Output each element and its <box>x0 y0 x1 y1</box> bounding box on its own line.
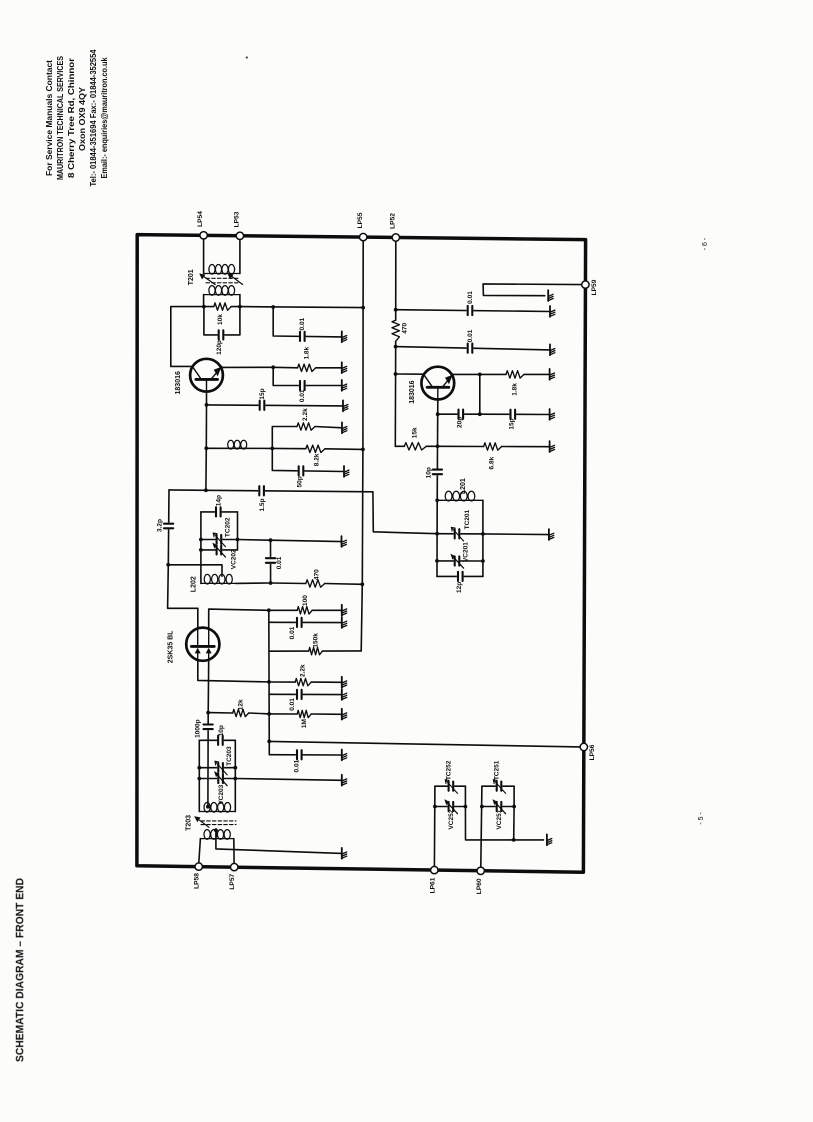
wire <box>206 490 437 533</box>
wire <box>395 241 397 320</box>
wire <box>204 306 214 308</box>
wire <box>269 621 342 623</box>
resistor 15k <box>404 443 426 450</box>
variable capacitor VC203 <box>217 773 224 784</box>
svg-text:TC252: TC252 <box>446 760 453 780</box>
junction <box>271 305 275 309</box>
terminal LP54 <box>200 232 207 239</box>
svg-text:15p: 15p <box>508 418 515 429</box>
ground <box>342 362 347 373</box>
wire <box>437 560 483 562</box>
svg-text:LP61: LP61 <box>429 877 436 893</box>
schematic border <box>137 235 586 873</box>
junction <box>360 582 364 586</box>
wire <box>199 839 201 863</box>
wire <box>269 681 295 683</box>
svg-text:LP59: LP59 <box>591 279 598 295</box>
ground <box>342 536 347 547</box>
wire <box>197 608 199 628</box>
TC202 arrow <box>213 533 225 547</box>
svg-text:Oxon OX9 4QY: Oxon OX9 4QY <box>78 86 87 151</box>
resistor 1M <box>297 710 311 717</box>
wire <box>437 414 439 446</box>
svg-text:3.2p: 3.2p <box>157 519 164 532</box>
trimmer capacitor TC252 <box>448 781 455 792</box>
wire <box>203 239 205 274</box>
trimmer capacitor TC202 <box>216 534 223 545</box>
capacitor 1.5p <box>258 485 265 496</box>
resistor 470 <box>306 580 325 587</box>
ground <box>342 422 347 433</box>
TC203 arrow <box>215 761 227 775</box>
ground <box>342 380 347 391</box>
junction <box>204 446 208 450</box>
wire <box>325 583 363 586</box>
svg-text:VC252: VC252 <box>448 809 455 829</box>
ground <box>342 677 347 688</box>
wire <box>206 447 272 449</box>
wire <box>361 241 363 651</box>
wire <box>396 347 550 350</box>
wire <box>240 307 363 308</box>
wire <box>235 779 341 781</box>
wire <box>207 405 344 406</box>
transistor Q1 183016 <box>190 359 223 392</box>
junction <box>478 412 482 416</box>
junction <box>269 538 273 542</box>
trimmer capacitor TC203 <box>217 762 224 773</box>
svg-text:T201: T201 <box>188 269 195 285</box>
capacitor 20p <box>457 409 464 420</box>
svg-text:1.8k: 1.8k <box>511 383 518 396</box>
resistor 470 <box>392 320 399 341</box>
svg-text:20p: 20p <box>456 417 463 428</box>
speck <box>246 56 248 58</box>
transformer T201 primary winding <box>204 265 240 275</box>
wire <box>322 650 361 652</box>
junction <box>436 444 440 448</box>
junction <box>267 680 271 684</box>
svg-text:TC201: TC201 <box>464 509 471 529</box>
T201 adjust arrow right <box>227 273 242 284</box>
capacitor 0.01 <box>296 749 303 760</box>
svg-text:LP55: LP55 <box>357 212 364 228</box>
capacitor 10p <box>217 735 224 746</box>
wire <box>437 400 439 415</box>
wire <box>426 445 437 447</box>
wire <box>271 540 342 541</box>
wire <box>272 427 297 449</box>
junction <box>166 563 170 567</box>
wire <box>394 341 396 446</box>
svg-text:Email:- enquiries@mauritron.co: Email:- enquiries@mauritron.co.uk <box>100 57 109 178</box>
svg-text:50p: 50p <box>297 476 304 487</box>
svg-text:0.01: 0.01 <box>289 698 296 711</box>
svg-text:183016: 183016 <box>409 380 416 403</box>
TC252 arrow <box>445 780 457 794</box>
ground <box>550 409 555 420</box>
ground <box>344 466 349 477</box>
resistor 8.2k <box>306 445 325 452</box>
trimmer capacitor TC201 <box>454 528 461 539</box>
svg-text:15p: 15p <box>259 388 266 399</box>
svg-text:0.01: 0.01 <box>293 759 300 772</box>
wire <box>481 786 482 867</box>
svg-text:10p: 10p <box>218 725 225 736</box>
terminal LP56 <box>580 743 587 750</box>
svg-text:VC201: VC201 <box>462 542 469 562</box>
wire <box>171 307 204 367</box>
junction <box>270 447 274 451</box>
junction <box>435 532 439 536</box>
wire <box>205 448 207 490</box>
junction <box>199 538 203 542</box>
junction <box>233 777 237 781</box>
svg-text:1M: 1M <box>301 719 308 728</box>
transformer T203 primary winding <box>199 803 235 813</box>
junction <box>206 805 210 809</box>
wire <box>316 367 342 369</box>
junction <box>199 548 203 552</box>
inductor L201 <box>437 491 483 501</box>
svg-text:0.01: 0.01 <box>467 329 474 342</box>
junction <box>481 532 485 536</box>
wire <box>437 575 483 577</box>
wire <box>269 609 297 611</box>
junction <box>436 412 440 416</box>
ground <box>342 689 347 700</box>
svg-text:2SK35 BL: 2SK35 BL <box>168 630 175 663</box>
ground <box>550 344 555 355</box>
wire <box>199 767 235 769</box>
ground <box>548 290 553 301</box>
junction <box>267 712 271 716</box>
svg-text:LP56: LP56 <box>589 744 596 760</box>
wire <box>437 533 483 535</box>
junction <box>233 766 237 770</box>
wire <box>233 839 235 864</box>
wire <box>203 295 205 307</box>
wire <box>208 712 233 714</box>
resistor 10k <box>214 303 231 310</box>
wire <box>269 754 342 756</box>
wire <box>436 500 438 576</box>
wire <box>325 448 363 451</box>
ground <box>549 529 554 540</box>
wire <box>231 306 240 308</box>
wire <box>168 490 198 608</box>
wire <box>237 512 239 550</box>
resistor 12k <box>233 709 249 716</box>
wire <box>273 367 342 385</box>
svg-text:12p: 12p <box>456 582 463 593</box>
wire <box>169 489 206 491</box>
terminal LP58 <box>195 863 202 870</box>
transformer T203 secondary winding <box>200 830 233 840</box>
svg-text:1.5p: 1.5p <box>259 498 266 511</box>
svg-text:L202: L202 <box>190 576 197 592</box>
wire <box>270 540 272 583</box>
svg-text:L201: L201 <box>460 478 467 494</box>
junction <box>236 538 240 542</box>
ground <box>342 617 347 628</box>
ground <box>550 369 555 380</box>
wire <box>271 582 306 585</box>
wire <box>199 778 235 780</box>
wire <box>395 445 404 447</box>
svg-text:10p: 10p <box>425 467 432 478</box>
wire <box>216 830 342 853</box>
wire <box>201 511 238 513</box>
T203 core <box>201 821 236 825</box>
capacitor 120p <box>218 329 225 340</box>
wire <box>453 373 480 375</box>
terminal LP59 <box>582 281 589 288</box>
T203 adjust arrow <box>194 816 209 827</box>
svg-text:TC203: TC203 <box>226 746 233 766</box>
svg-text:0.01: 0.01 <box>299 389 306 402</box>
wire <box>435 806 466 808</box>
wire <box>510 839 543 841</box>
resistor 1.8k <box>298 364 316 371</box>
capacitor 0.01 <box>299 380 306 391</box>
TC201 arrow <box>451 527 463 541</box>
capacitor 12p <box>457 571 464 582</box>
capacitor 50p <box>298 465 305 476</box>
wire <box>273 366 297 369</box>
wire <box>204 307 240 335</box>
junction <box>238 305 242 309</box>
svg-text:10k: 10k <box>217 314 224 325</box>
resistor 1.8k <box>506 371 524 378</box>
wire <box>524 373 550 375</box>
svg-text:2.2k: 2.2k <box>302 408 309 421</box>
svg-text:1.8k: 1.8k <box>304 346 311 359</box>
junction <box>271 365 275 369</box>
ground <box>342 848 347 859</box>
VC251 arrow <box>492 799 505 814</box>
ground <box>550 441 555 452</box>
wire <box>272 447 306 449</box>
wire <box>396 310 550 312</box>
wire <box>269 741 580 747</box>
svg-text:2.2k: 2.2k <box>299 664 306 677</box>
wire <box>238 539 271 542</box>
ground <box>343 400 348 411</box>
junction <box>197 766 201 770</box>
TC251 arrow <box>493 780 505 794</box>
svg-text:- 6 -: - 6 - <box>702 237 709 250</box>
wire <box>482 806 514 808</box>
wire <box>201 539 238 541</box>
svg-text:- 5 -: - 5 - <box>698 812 705 825</box>
wire <box>207 713 209 807</box>
svg-text:For Service Manuals Contact: For Service Manuals Contact <box>45 60 54 176</box>
capacitor 15p <box>259 400 266 411</box>
transistor Q2 183016 <box>421 367 454 400</box>
ground <box>342 750 347 761</box>
junction <box>433 805 437 809</box>
resistor 6.8k <box>484 443 502 450</box>
wire <box>269 693 342 695</box>
svg-text:0.01: 0.01 <box>276 556 283 569</box>
wire <box>435 785 466 787</box>
svg-text:SCHEMATIC DIAGRAM – FRONT END: SCHEMATIC DIAGRAM – FRONT END <box>14 878 26 1062</box>
svg-text:120p: 120p <box>216 340 223 355</box>
wire <box>222 366 274 368</box>
wire <box>205 405 207 448</box>
ground <box>547 834 552 845</box>
wire <box>209 609 269 629</box>
wire <box>482 500 484 576</box>
junction <box>512 838 516 842</box>
capacitor 0.01 <box>296 689 303 700</box>
FET 2SK35 dual gate <box>186 628 219 661</box>
svg-text:6.8k: 6.8k <box>488 456 495 469</box>
wire <box>249 712 269 715</box>
wire <box>483 533 549 536</box>
svg-text:LP52: LP52 <box>390 213 397 229</box>
capacitor 10p <box>432 469 443 476</box>
junction <box>204 488 208 492</box>
wire <box>438 413 480 415</box>
VC202 arrow <box>212 543 225 558</box>
ground <box>342 775 347 786</box>
terminal LP52 <box>392 234 399 241</box>
svg-text:MAURITRON TECHNICAL SERVICES: MAURITRON TECHNICAL SERVICES <box>56 56 65 180</box>
junction <box>267 608 271 612</box>
wire <box>396 373 424 375</box>
svg-text:LP58: LP58 <box>193 873 200 889</box>
wire <box>433 786 436 866</box>
capacitor 0.01 <box>467 305 474 316</box>
capacitor 0.01 <box>265 557 276 564</box>
svg-text:150k: 150k <box>313 633 320 648</box>
capacitor 14p <box>215 506 222 517</box>
junction <box>202 305 206 309</box>
svg-text:15k: 15k <box>411 427 418 438</box>
wire <box>502 446 550 448</box>
capacitor 3.2p <box>163 523 174 530</box>
svg-text:0.01: 0.01 <box>299 317 306 330</box>
variable capacitor VC251 <box>496 801 503 812</box>
terminal LP60 <box>477 867 484 874</box>
svg-text:VC203: VC203 <box>218 784 225 804</box>
svg-text:8.2k: 8.2k <box>313 453 320 466</box>
ground <box>342 605 347 616</box>
capacitor 15p <box>509 409 516 420</box>
svg-text:LP57: LP57 <box>229 873 236 889</box>
ground <box>342 709 347 720</box>
VC203 arrow <box>214 771 227 786</box>
svg-text:8 Cherry Tree Rd, Chinnor: 8 Cherry Tree Rd, Chinnor <box>67 57 76 178</box>
wire <box>438 445 484 447</box>
VC252 arrow <box>444 799 457 814</box>
wire <box>273 307 342 337</box>
svg-text:VC251: VC251 <box>496 809 503 829</box>
junction <box>394 372 398 376</box>
svg-text:1000p: 1000p <box>195 719 202 737</box>
wire <box>269 713 297 715</box>
ground <box>550 306 555 317</box>
wire <box>239 239 241 273</box>
variable capacitor VC252 <box>448 801 455 812</box>
T201 adjust arrow left <box>199 273 215 284</box>
svg-text:LP60: LP60 <box>476 878 483 894</box>
T201 core <box>206 278 239 283</box>
svg-text:VC202: VC202 <box>230 549 237 569</box>
svg-text:470: 470 <box>314 569 321 580</box>
svg-text:183016: 183016 <box>175 371 182 394</box>
wire <box>200 512 202 584</box>
wire <box>239 295 241 307</box>
wire <box>312 609 342 611</box>
wire <box>199 739 235 741</box>
junction <box>361 306 365 310</box>
junction <box>394 308 398 312</box>
wire <box>311 681 342 683</box>
resistor 2.2k <box>295 678 311 685</box>
junction <box>394 345 398 349</box>
wire <box>311 713 342 715</box>
junction <box>205 403 209 407</box>
junction <box>435 498 439 502</box>
junction <box>512 805 516 809</box>
wire <box>198 740 200 811</box>
capacitor 0.01 <box>296 617 303 628</box>
capacitor 0.01 <box>467 343 474 354</box>
junction <box>481 559 485 563</box>
junction <box>267 740 271 744</box>
trimmer capacitor TC251 <box>496 781 503 792</box>
wire <box>236 582 271 584</box>
wire <box>513 786 515 840</box>
ground <box>342 331 347 342</box>
svg-text:TC202: TC202 <box>225 517 232 537</box>
wire <box>436 446 438 500</box>
junction <box>214 828 218 832</box>
svg-text:LP53: LP53 <box>234 211 241 227</box>
junction <box>480 805 484 809</box>
terminal LP53 <box>236 232 243 239</box>
svg-text:Tel:- 01844-351694 Fax:- 01844: Tel:- 01844-351694 Fax:- 01844-352554 <box>89 49 98 186</box>
wire <box>479 374 481 414</box>
svg-text:14p: 14p <box>215 495 222 506</box>
svg-text:LP54: LP54 <box>197 211 204 227</box>
svg-text:0.01: 0.01 <box>289 626 296 639</box>
inductor L202 <box>201 574 236 584</box>
junction <box>435 559 439 563</box>
svg-text:470: 470 <box>401 322 408 333</box>
wire <box>168 565 222 576</box>
inductor choke <box>226 440 248 449</box>
wire <box>480 373 506 375</box>
wire <box>268 610 271 754</box>
capacitor 1000p <box>203 724 214 731</box>
junction <box>464 805 468 809</box>
terminal LP55 <box>360 233 367 240</box>
wire <box>206 392 208 405</box>
VC201 arrow <box>450 554 463 569</box>
svg-text:T203: T203 <box>186 815 193 831</box>
resistor 150k <box>309 647 323 654</box>
junction <box>206 711 210 715</box>
svg-text:12k: 12k <box>238 699 245 710</box>
wire <box>201 549 238 551</box>
terminal LP57 <box>231 863 238 870</box>
resistor 100 <box>297 607 312 614</box>
variable capacitor VC201 <box>454 555 461 566</box>
